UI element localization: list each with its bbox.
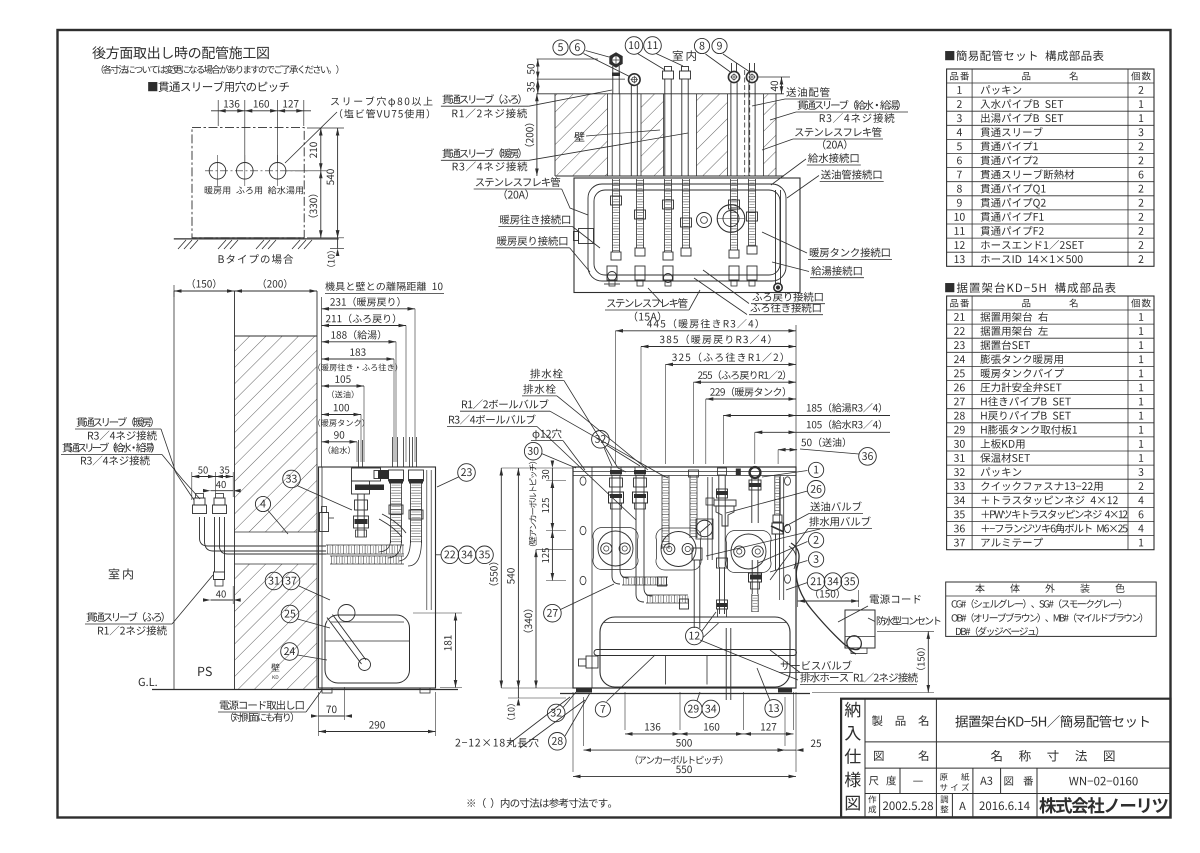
flex pipe C [661,476,663,550]
horizontal flex run through wall hole [326,544,404,546]
pipe A elbow to lower-left horizontal run [612,508,620,584]
tank drain fitting left [586,656,598,668]
bath connection labels below [752,292,822,302]
clearance note [325,282,442,291]
inset dashed wall panel [192,128,304,238]
pipes 3 and 4 (heating) with caps [663,71,674,79]
front view top dim ladder [616,330,797,332]
balloon 30 [524,442,542,460]
inset hole captions [205,186,303,194]
drain hose label [800,673,917,683]
pipe stack B (heating return) [635,476,637,509]
balloons 29/34 bottom [685,700,703,718]
balloon 23 (top right of side view) [458,464,476,482]
ground hatching [178,240,186,249]
inset heading [148,81,289,92]
parts table 1 grid [947,69,1154,266]
right corrugated columns [390,481,392,543]
side wall pass-through hole [234,532,318,564]
title block rows [865,741,1171,743]
section title [92,46,269,59]
balloon 32 top [592,431,610,449]
diagonal drain pipe [328,620,360,663]
ball valve tops A/B [611,467,621,475]
balloon 5 [553,40,568,55]
tank mounting strap [594,650,797,656]
balloon 2 [809,533,824,548]
top dims (150)/(200) [173,285,175,297]
pipe F (hot water) [751,476,753,524]
outlet box [845,610,875,648]
diagonal pipe inside [382,514,406,533]
balloon 3 [809,552,824,567]
parts table 1 heading [945,50,1103,61]
pipe F lower section [751,560,753,594]
feet [576,688,592,693]
right balloons [859,448,877,466]
sleeve gaps in wall [608,93,642,176]
left sleeve labels (upper) [77,417,153,427]
inset vertical dims 210/540/(330)/(10) [307,127,344,129]
parts table 2 rows [954,313,965,321]
balloon 33 (side) [283,470,301,488]
left loop stub fitting [579,229,594,244]
drain down-pipe through tank [717,600,728,609]
inset ground line [174,238,339,240]
pressure gauge (small circle) [697,213,712,228]
unit top pipe stubs [358,440,360,467]
expansion tank (side view) [325,615,410,683]
PS label [198,667,212,676]
pump at 678.5 [661,532,696,567]
balloons 21/34/35 [807,573,825,591]
pipe E (heating tank line) [718,476,720,568]
PS boundary line [173,291,175,689]
second horizontal flex run [330,555,404,557]
front frame [573,467,796,688]
title block frame [841,699,1170,818]
extra vertical pipe near oil valve [707,477,709,560]
bottom anchor dims [572,692,574,772]
right reference extension [795,325,797,467]
service valve label [781,661,852,670]
lower horizontal flex run 2 [646,594,688,596]
right anchor rail [783,477,785,600]
left wall-anchor dims 30/125/125 [546,480,566,482]
parts table 2 header text [950,299,969,308]
40 dim upper [211,490,234,492]
bath pipe lower fitting [214,572,225,580]
sleeve note + leader [331,96,433,107]
valve labels right [810,502,861,512]
pressure gauge [696,519,713,539]
wall label [574,132,584,142]
parts table 1 rows [957,86,961,94]
right 40 dim [758,76,790,78]
union fitting 2 [629,74,641,86]
wall sleeve fittings (left) [193,505,207,514]
G.L. label and ground line [139,678,157,686]
parts table 2 heading [945,282,1115,293]
balloon 4 (sleeve) [255,496,270,511]
181 dim right of side view [413,612,462,614]
relief valve left side [320,513,329,532]
pipes 5 and 6 (water) with union rings [731,63,733,72]
labels upper-left of front view [530,369,562,379]
balloons 31/37 [265,572,283,590]
290 dim below unit [435,692,437,736]
oil line (dashed) [744,70,746,176]
balloon 6 [570,40,585,55]
balloon 11 [644,37,662,55]
tank center panel lines [665,656,667,685]
row1 product name [935,699,937,768]
bottom fittings row [607,266,617,280]
unit feet (side view) [322,688,332,693]
pipe 1 sleeve fitting in wall [611,94,613,176]
heating tank valve (large circle) [717,205,745,233]
wall outline (top view) [537,93,785,95]
flex pipe D [689,476,691,539]
(150) vertical dim right [877,630,934,632]
balloon 7 [595,702,610,717]
wall band (top view) with hatching [555,94,776,176]
balloon 24 [281,643,299,661]
frame top plate lines [573,471,796,473]
base ground line (front) [560,693,810,695]
tank strap [325,640,410,642]
inset caption B-type [219,254,294,264]
tank sight circle [338,605,355,622]
elbow pipes from wall to unit [200,517,327,546]
inset sleeve holes [209,163,226,180]
bath sleeve label (lower) [87,612,164,622]
dark nut accents [610,494,622,498]
bath valves lower-left [608,272,617,281]
balloon 8 [694,38,709,53]
outlet leader labels [870,594,921,604]
balloon 25 [281,605,299,623]
reference-dimension note [467,798,611,808]
title block vertical label column [864,699,866,818]
parts table 1 header text [950,72,969,81]
70 dim below unit [318,692,320,736]
balloon 13 [765,700,783,718]
bottom balloons 32/28 [547,704,565,722]
left vertical pipe with unions [357,494,359,537]
row2 drawing name [874,751,884,761]
row4 dates and company [879,794,881,818]
big supply ring top [750,467,761,478]
room label [673,50,696,61]
ladder reference line [321,297,323,467]
side dim ladder (pipe positions) [322,308,416,310]
labels right of top view [786,87,829,97]
labels left of top view [442,94,520,104]
oil pickup pipe right [775,190,777,284]
power cord outlet label [220,700,304,710]
room label (side) [109,568,133,579]
lower horizontal flex run 1 [622,576,668,578]
pipe stack A (heating out) [611,476,613,509]
right-side dims 185/105/50 [722,416,724,465]
top elbow fitting cluster (left) [352,468,381,481]
unit cabinet (side view) [319,467,436,688]
(200) wall thickness dim [536,94,538,176]
assembly unions on flex pipes [611,196,622,205]
row3 scale/size/number [899,768,901,793]
right mid labels [810,248,890,258]
oil valve on pipe G [772,523,783,534]
pipe B elbow to run 2 [636,508,644,602]
oil feed valve assembly (26) [716,506,734,526]
balloon 9 [712,38,727,53]
assembly flex pipes (vertical) [612,179,614,252]
piping assembly box (top view) [574,178,800,293]
flex columns curve into horizontal run [379,540,391,552]
2-12x18 slot label [455,738,538,748]
inset hole-pitch dimension 136/160/127 [217,100,219,126]
side wall hatch [235,336,318,689]
flex pipe 15A label [607,298,688,308]
50/35 dims above fittings [191,472,193,500]
balloon 12 [686,627,704,645]
pipe 1 (bath) through wall with hex union [612,66,614,94]
power cord [791,543,861,654]
(150) dim to outlet [797,584,799,607]
left anchor rail [591,467,593,688]
balloon 27 [544,604,562,622]
40 dim lower [211,599,234,601]
side wall edges [234,291,236,689]
pump at 748.5 [731,534,766,569]
balloon 10 [625,37,643,55]
pump at 615.5 [598,531,633,566]
balloons 22/34/35 [441,546,459,564]
drain pipe (long) [693,560,695,628]
pipe loop around assembly [588,184,786,281]
wall label at bottom [271,663,279,671]
left overall dims [501,467,573,469]
body color box [946,582,1156,636]
top view left dims 50/35 [537,58,599,60]
parts table 2 grid [947,296,1154,550]
(10) dim bottom left [508,697,566,699]
expansion tank (front) [600,617,790,687]
pipe G (oil line) [774,476,776,516]
